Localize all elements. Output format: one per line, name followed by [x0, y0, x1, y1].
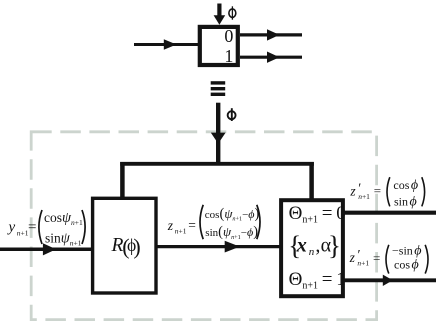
- wire top output 0: [240, 29, 302, 40]
- wire output 1: [343, 275, 436, 286]
- wire drop to R box: [120, 162, 125, 199]
- svg-text:0: 0: [224, 26, 233, 46]
- label z'0 vector: [349, 177, 424, 209]
- phi input arrow (middle): [211, 103, 226, 164]
- svg-text:y: y: [7, 220, 16, 236]
- svg-text:z: z: [349, 250, 356, 265]
- svg-text:cosϕ: cosϕ: [393, 178, 418, 193]
- svg-text:−sinϕ: −sinϕ: [392, 244, 422, 259]
- svg-text:=: =: [374, 183, 381, 198]
- svg-text:z: z: [349, 183, 356, 198]
- svg-text:=: =: [188, 217, 196, 232]
- svg-text:=: =: [373, 250, 380, 265]
- box theta: [281, 200, 343, 296]
- label phi (middle): [228, 108, 236, 121]
- svg-text:Θn+1 = 0: Θn+1 = 0: [289, 203, 346, 226]
- svg-text:Θn+1 = 1: Θn+1 = 1: [289, 269, 346, 292]
- svg-text:cos(ψn+1−ϕ): cos(ψn+1−ϕ): [205, 206, 260, 223]
- wire drop to theta box: [309, 162, 314, 200]
- svg-text:sinϕ: sinϕ: [394, 195, 417, 210]
- label phi (top): [229, 6, 236, 19]
- phi input arrow (top): [214, 4, 226, 25]
- equivalence symbol: [211, 81, 226, 96]
- svg-text:n+1: n+1: [357, 259, 369, 268]
- top selector box: [200, 27, 238, 65]
- wire top input: [134, 39, 199, 49]
- svg-text:=: =: [28, 219, 36, 235]
- label y_{n+1} vector: [7, 210, 86, 248]
- svg-text:{xn,α}: {xn,α}: [288, 231, 341, 261]
- svg-text:R(ϕ): R(ϕ): [111, 234, 141, 259]
- svg-text:cosϕ: cosϕ: [394, 258, 419, 273]
- svg-text:n+1: n+1: [358, 192, 370, 201]
- svg-text:n+1: n+1: [17, 228, 29, 237]
- wire top output 1: [240, 52, 302, 63]
- dashed system boundary: [31, 132, 376, 320]
- label z'1 vector: [349, 244, 428, 274]
- wire output 0: [343, 211, 436, 215]
- svg-text:z: z: [167, 218, 174, 233]
- svg-text:n+1: n+1: [175, 226, 187, 235]
- svg-text:1: 1: [224, 46, 233, 66]
- wire bus top: [120, 162, 314, 166]
- label z_{n+1} vector: [167, 205, 260, 241]
- wire input y: [0, 243, 93, 255]
- wire z between boxes: [156, 241, 281, 253]
- box R(phi): [93, 198, 156, 293]
